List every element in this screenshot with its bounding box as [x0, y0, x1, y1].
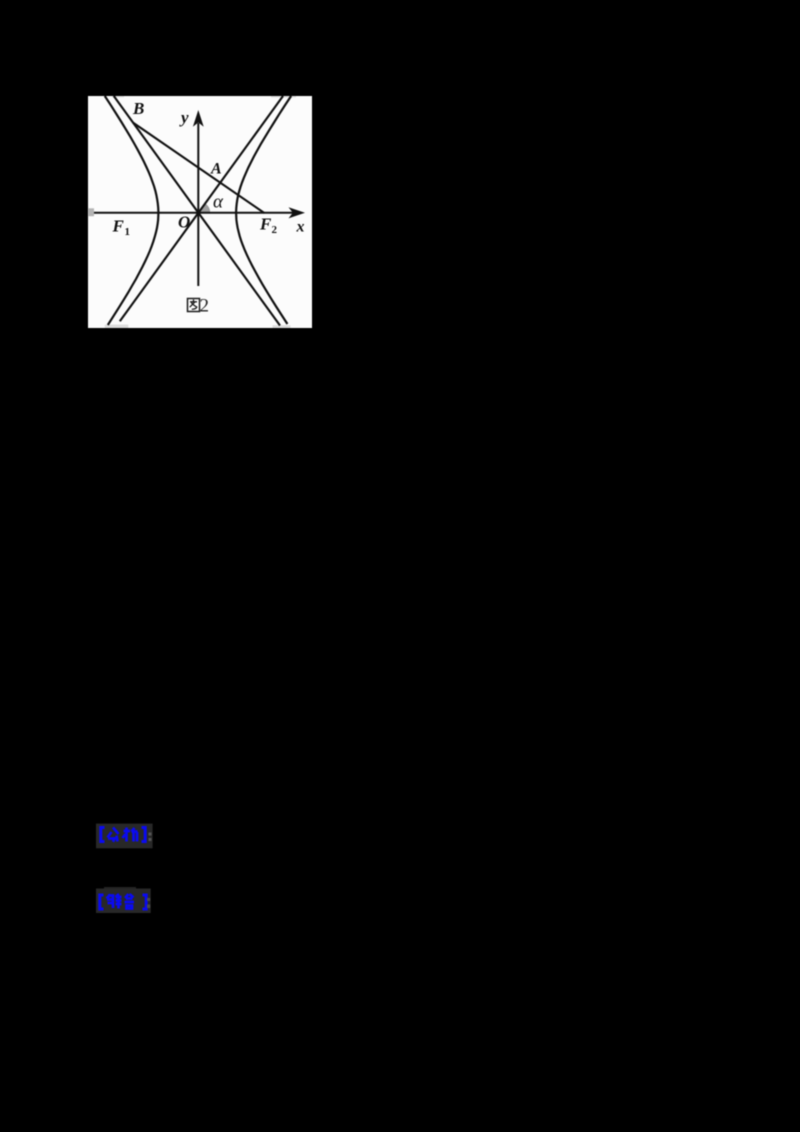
bracket left — [101, 828, 105, 842]
white panel background — [88, 96, 312, 328]
gray smudge top-left — [112, 96, 124, 97]
bracket right — [142, 828, 146, 842]
gray colon after label 1 — [149, 833, 152, 842]
dark box behind label 1 — [96, 824, 153, 849]
blue label 1 【分析】 with dark box — [94, 822, 158, 850]
label O — [178, 213, 190, 232]
svg-text:F: F — [259, 215, 272, 234]
gray smudge top-right — [271, 96, 296, 98]
y-axis with arrowhead — [193, 110, 204, 286]
gray handle left edge of x-axis — [89, 208, 95, 216]
svg-text:1: 1 — [125, 226, 131, 238]
label x — [296, 219, 305, 236]
svg-text:A: A — [210, 161, 222, 178]
char fen — [108, 828, 119, 842]
dark box behind label 2 — [96, 889, 151, 914]
asymptote y=-kx (up-right to down-left on screen) — [120, 96, 283, 321]
char jie — [107, 894, 122, 909]
gray smudge bottom-left — [105, 325, 129, 328]
figure panel 图2 (hyperbola diagram) — [88, 96, 312, 328]
dark bar above label 2 — [104, 887, 136, 893]
blue label 2 【解答】 with dark box — [94, 886, 158, 916]
label B — [132, 99, 144, 118]
label y — [179, 108, 189, 127]
gray mark after label 2 — [147, 898, 150, 908]
svg-text:F: F — [112, 217, 125, 236]
label F2 — [259, 215, 278, 237]
line B-A-F2 — [133, 123, 264, 213]
char xi — [123, 828, 138, 842]
svg-text:2: 2 — [200, 296, 210, 317]
caption digit 2 — [200, 296, 210, 317]
svg-text:α: α — [213, 192, 224, 213]
svg-text:y: y — [179, 108, 189, 127]
caption 图2 : hand-drawn 图 glyph — [188, 299, 200, 312]
svg-text:2: 2 — [272, 224, 278, 236]
x-axis with arrowhead — [94, 207, 305, 218]
label alpha — [213, 192, 224, 213]
bracket right — [143, 895, 147, 909]
hyperbola right branch — [236, 96, 291, 324]
bracket left — [100, 895, 104, 909]
char da — [125, 894, 135, 909]
svg-text:x: x — [296, 219, 305, 236]
label F1 — [112, 217, 131, 239]
svg-text:B: B — [132, 99, 144, 118]
label A — [210, 161, 222, 178]
angle wedge alpha (shaded sector at O) — [198, 204, 210, 213]
svg-text:O: O — [178, 213, 190, 232]
asymptote y=kx (through O, up-left to down-right on screen) — [114, 96, 280, 326]
gray smudge bottom-right — [273, 325, 291, 328]
hyperbola left branch — [105, 96, 159, 325]
